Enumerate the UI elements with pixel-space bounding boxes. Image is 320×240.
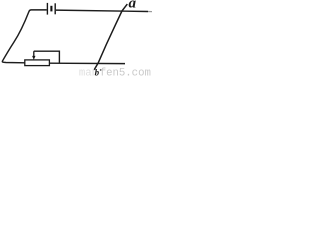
battery cell plate long (right)	[54, 3, 56, 14]
rheostat wiper arrow	[33, 51, 35, 57]
wire: wiper loop top and right leg	[34, 51, 60, 63]
battery cell plate short thick (middle)	[50, 6, 52, 12]
wire: left diagonal from bottom-left up to top rail corner	[2, 10, 47, 62]
battery cell plate long (left)	[46, 3, 48, 15]
conducting rod ab (diagonal)	[94, 4, 127, 70]
speck near b	[100, 69, 101, 71]
svg-text:fen5.com: fen5.com	[100, 67, 151, 76]
svg-text:b: b	[95, 68, 100, 76]
wire: faded tip of top rail	[148, 11, 152, 13]
rheostat box R	[25, 60, 50, 66]
wire: bottom rail left segment to rheostat	[2, 62, 25, 63]
wire: bottom rail right segment	[49, 62, 125, 64]
svg-text:a: a	[129, 0, 137, 12]
wire: top rail right of battery	[56, 10, 148, 11]
